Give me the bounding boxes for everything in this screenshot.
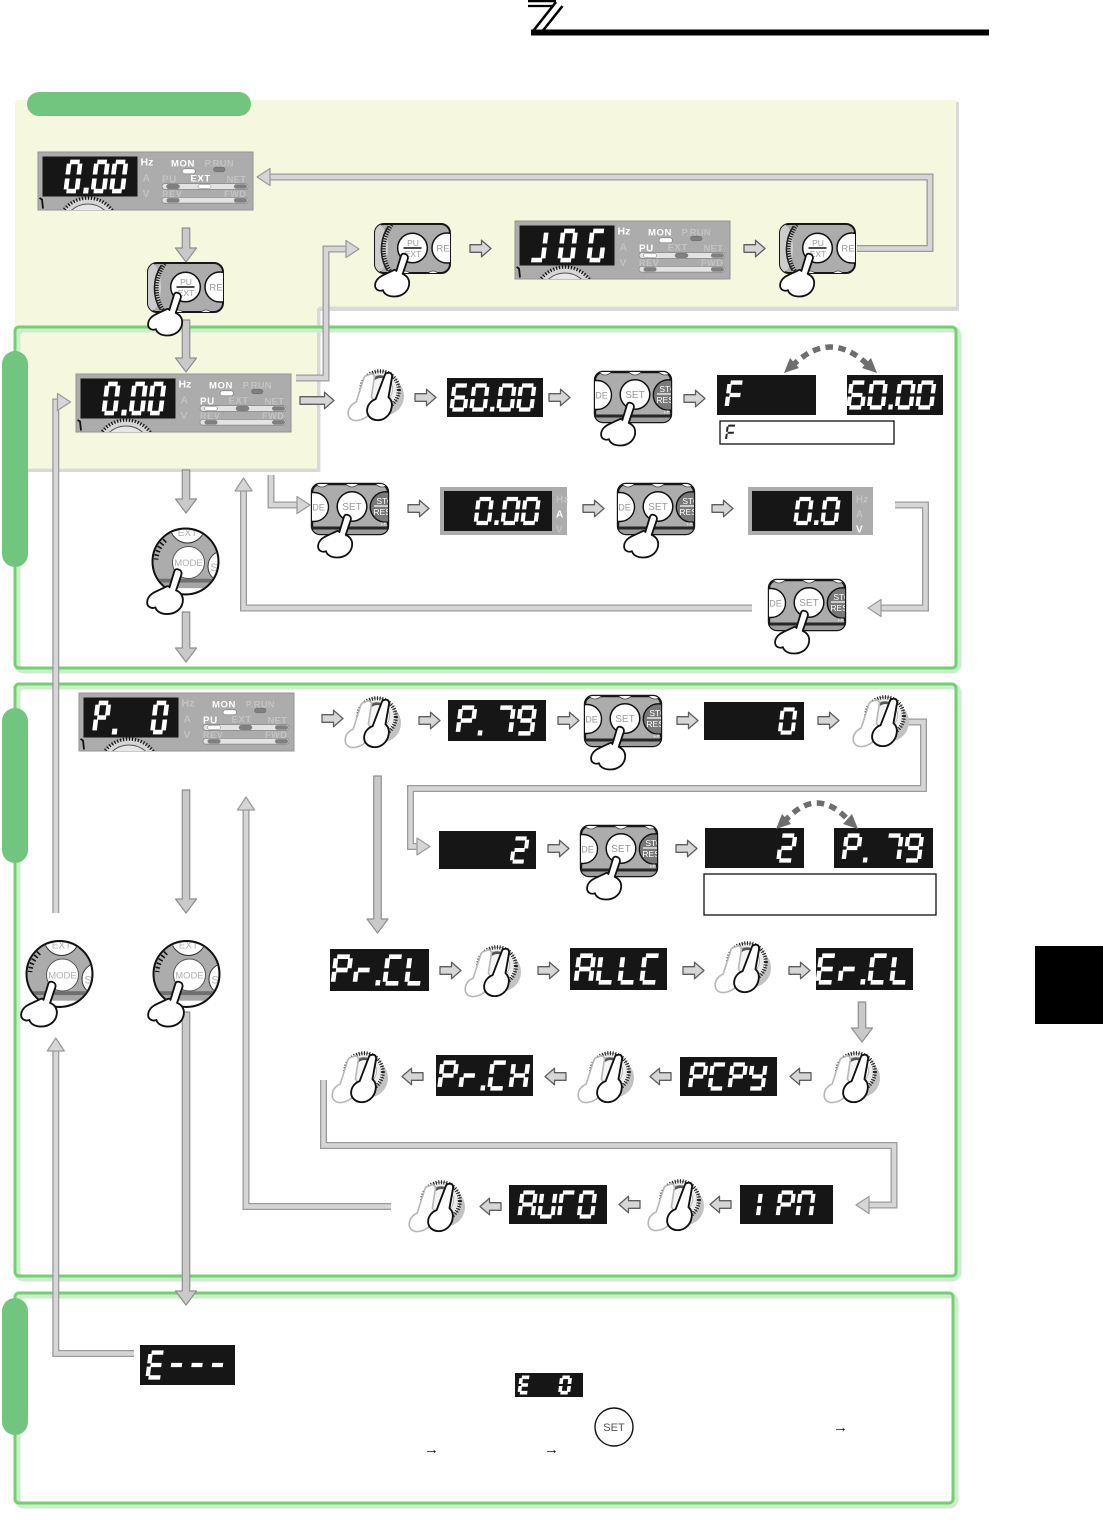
svg-text:PU: PU — [812, 238, 824, 248]
svg-text:Hz: Hz — [856, 495, 868, 506]
svg-text:FR.: FR. — [381, 522, 388, 527]
svg-text:→: → — [544, 1441, 559, 1458]
svg-text:→: → — [833, 1419, 848, 1436]
svg-text:SET: SET — [342, 502, 361, 513]
svg-text:A: A — [856, 510, 863, 521]
svg-text:A: A — [184, 714, 192, 726]
svg-text:SET: SET — [625, 390, 644, 401]
svg-text:V: V — [620, 257, 627, 269]
svg-text:A: A — [143, 173, 151, 185]
svg-text:FR.: FR. — [838, 618, 845, 623]
svg-text:SET: SET — [611, 844, 630, 855]
svg-text:Hz: Hz — [141, 157, 154, 169]
svg-text:SET: SET — [648, 502, 667, 513]
svg-text:V: V — [856, 525, 863, 536]
svg-text:PU: PU — [180, 277, 192, 287]
svg-text:V: V — [181, 410, 188, 422]
svg-text:MON: MON — [648, 228, 672, 239]
svg-text:SET: SET — [799, 598, 818, 609]
svg-text:A: A — [181, 395, 189, 407]
svg-text:MODE: MODE — [175, 971, 204, 982]
svg-text:MON: MON — [171, 159, 195, 170]
svg-text:PU: PU — [407, 238, 419, 248]
svg-text:EXT: EXT — [229, 396, 249, 407]
svg-text:RE: RE — [209, 283, 222, 294]
svg-text:Hz: Hz — [618, 226, 631, 238]
svg-text:MON: MON — [212, 700, 236, 711]
svg-text:MON: MON — [209, 381, 233, 392]
svg-text:EXT: EXT — [191, 174, 211, 185]
svg-text:FR.: FR. — [654, 734, 661, 739]
svg-text:RE: RE — [436, 244, 449, 255]
svg-text:V: V — [556, 525, 563, 536]
svg-text:EXT: EXT — [232, 715, 252, 726]
svg-text:Hz: Hz — [179, 379, 192, 391]
svg-text:RE: RE — [841, 244, 854, 255]
svg-text:EXT: EXT — [668, 243, 688, 254]
svg-text:MODE: MODE — [48, 971, 77, 982]
svg-text:→: → — [424, 1441, 439, 1458]
svg-text:FR.: FR. — [664, 410, 671, 415]
svg-text:A: A — [620, 242, 628, 254]
svg-text:FR.: FR. — [650, 864, 657, 869]
svg-text:V: V — [143, 188, 150, 200]
svg-text:V: V — [184, 729, 191, 741]
svg-text:A: A — [556, 510, 563, 521]
svg-text:FR.: FR. — [687, 522, 694, 527]
svg-text:SET: SET — [615, 714, 634, 725]
svg-text:Hz: Hz — [182, 698, 195, 710]
svg-text:MODE: MODE — [174, 558, 203, 569]
svg-text:SET: SET — [603, 1422, 625, 1434]
svg-text:Hz: Hz — [556, 495, 568, 506]
